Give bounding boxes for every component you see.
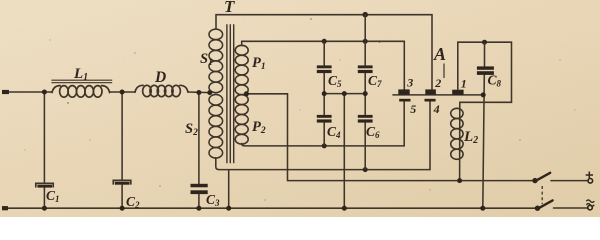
A pointer: [443, 64, 445, 79]
inductor L2: [459, 102, 461, 180]
wire S2 bottom line: [219, 102, 430, 170]
wire middle link: [324, 94, 365, 209]
node C3 top: [196, 90, 201, 95]
node C2 top: [120, 90, 125, 95]
inductor L1: [52, 86, 110, 98]
paper speckles: [67, 102, 69, 104]
node C7 at P1 line: [363, 39, 368, 44]
wire C7/C6 column: [364, 15, 366, 170]
winding S1: [209, 29, 223, 93]
node C4 bottom: [322, 143, 327, 148]
wire top rail S1 to contact 2: [216, 15, 432, 90]
contact 1: [452, 90, 463, 95]
wire main horizontal: [9, 91, 210, 94]
node C1 top: [42, 90, 47, 95]
contact 3: [398, 89, 409, 94]
node middle left: [322, 91, 327, 96]
contact 2: [425, 89, 436, 94]
wire C3 column: [198, 93, 200, 209]
node bottom C8: [480, 206, 485, 211]
capacitor C8: [477, 66, 494, 69]
wire bottom: [8, 207, 538, 209]
winding P2: [235, 95, 248, 144]
node main wire to winding: [207, 90, 212, 95]
transformer core: [227, 24, 234, 163]
wire C2 column: [121, 92, 123, 208]
paper grain: [0, 0, 1, 1]
node bottom S2: [226, 206, 231, 211]
capacitor C6: [358, 115, 373, 118]
wire P2 bottom line: [242, 102, 405, 146]
capacitor C1: [36, 183, 53, 187]
capacitor C2: [113, 180, 131, 184]
node C5 top: [322, 39, 327, 44]
wire C1 column: [43, 92, 45, 208]
capacitor C3: [191, 184, 208, 188]
wire P1 top line to contact 3: [242, 41, 405, 89]
wire C5/C4 column: [323, 41, 325, 146]
winding S2: [209, 95, 223, 159]
node bottom C1: [42, 206, 47, 211]
switch upper pole: [532, 178, 537, 183]
wire S2 bottom: [216, 158, 219, 170]
wire C8 column: [483, 42, 485, 208]
terminal plus: [588, 179, 593, 184]
node middle center: [342, 91, 347, 96]
node bottom middle: [342, 206, 347, 211]
wire P tap to phones line: [246, 94, 535, 181]
node bottom C3: [196, 206, 201, 211]
node contact line at C8 column: [481, 92, 486, 97]
ground terminal left: [2, 206, 8, 210]
node middle right: [363, 91, 368, 96]
capacitor C5: [317, 65, 332, 68]
node C6 bottom: [363, 167, 368, 172]
node C8 top: [482, 40, 487, 45]
node bottom C2: [120, 206, 125, 211]
terminal minus: [588, 205, 593, 210]
winding P1: [241, 41, 243, 45]
L1 core lines: [51, 80, 112, 83]
node C7 at top rail: [362, 12, 368, 18]
switch lower pole: [535, 206, 540, 211]
node L2 bottom: [457, 178, 462, 183]
input terminal: [2, 90, 9, 94]
wire C8 box top: [458, 42, 512, 102]
inductor D: [135, 85, 188, 96]
wire S2 drop to ground: [228, 170, 230, 209]
capacitor C7: [358, 65, 373, 68]
capacitor C4: [317, 115, 332, 118]
wire contact line: [393, 94, 483, 96]
switch linkage dashed: [541, 186, 543, 204]
node P tap: [244, 91, 249, 96]
